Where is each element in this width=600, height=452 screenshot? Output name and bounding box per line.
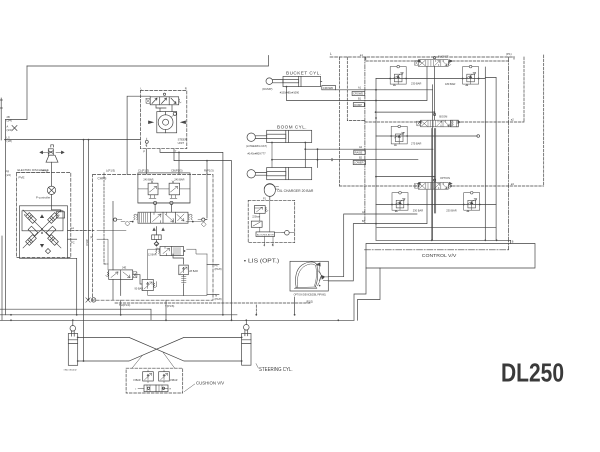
plugged port X at CHPS corner — [86, 298, 90, 302]
node T label — [175, 150, 177, 154]
junction bucket pilot — [418, 60, 420, 62]
wire top supply line — [27, 56, 269, 67]
wire CHPS R port stub — [206, 161, 208, 174]
svg-text:28 BAR: 28 BAR — [189, 270, 198, 273]
relief 230bar label — [411, 82, 422, 86]
svg-text:T: T — [175, 150, 177, 154]
svg-text:a3: a3 — [511, 182, 515, 186]
wire TH dashed collector — [115, 302, 310, 304]
svg-text:L: L — [330, 52, 332, 56]
node R label steering — [185, 86, 187, 90]
pilot control triangles under spool — [152, 228, 165, 240]
cushion relief left label — [133, 379, 141, 382]
junction rails — [10, 314, 12, 316]
boom cylinder label — [277, 125, 307, 130]
option section pilot dashed line — [339, 185, 543, 187]
relief valve option A 230bar — [392, 191, 408, 211]
wire CV spool risers bucket — [433, 67, 435, 241]
wire bucket workline through reliefs — [376, 78, 496, 79]
svg-text:PR: PR — [6, 170, 10, 174]
cushion label with leader — [184, 381, 225, 392]
svg-text:CROWD: CROWD — [353, 92, 363, 96]
wire CB port stub — [178, 152, 180, 174]
wire riser T to rail — [255, 305, 257, 315]
svg-text:(P1/8): (P1/8) — [215, 297, 222, 301]
pilot dashed riser right b3 — [543, 55, 545, 186]
reducing valve setting label — [148, 254, 157, 257]
svg-text:PVE: PVE — [19, 176, 25, 180]
svg-text:BOOM: BOOM — [439, 114, 447, 118]
cushion relief right label — [170, 379, 178, 382]
wire boom raise line — [305, 143, 433, 168]
node PD port labels — [7, 115, 12, 122]
node L label steering — [141, 86, 143, 90]
wire Ps stub — [207, 264, 219, 266]
relief valve 240bar left label — [143, 178, 153, 181]
node A1 crowd boxed label — [352, 87, 365, 96]
wire option A3 work line — [328, 214, 417, 277]
wire CV right risers — [485, 67, 496, 240]
svg-text:A1: A1 — [358, 87, 362, 90]
node Ts port — [215, 293, 222, 301]
wire steering L work line — [160, 149, 223, 315]
cylinder bucket — [266, 76, 321, 86]
plugged port X symbol — [12, 126, 17, 131]
CHPS pilot dashed internal riser — [104, 173, 108, 264]
control valve dashed boundary right — [513, 57, 515, 60]
orifice symbol at CHPS corner — [91, 298, 95, 302]
wire left cyl to rail — [72, 320, 74, 325]
pilot dash-dot boundary riser P1 — [508, 57, 510, 250]
node B1 dump boxed label — [353, 98, 364, 107]
svg-text:CL(P1/3): CL(P1/3) — [138, 169, 149, 173]
node (LOWER/FLOAT) label — [246, 144, 267, 148]
svg-text:15BAR: 15BAR — [170, 379, 178, 382]
pressure reducing valve — [155, 242, 186, 255]
node T port label — [165, 304, 174, 308]
relief valve 90bar — [142, 279, 156, 290]
wire top pilot dashed L line — [330, 56, 514, 58]
wire CV inner left riser — [375, 79, 377, 241]
node B label — [512, 241, 514, 244]
wire steering cross line 2 — [78, 337, 242, 361]
pilot dashed riser a3 — [365, 57, 367, 61]
wire bucket crowd line — [321, 82, 433, 90]
wire pump delivery B riser — [88, 140, 90, 300]
junction CHPS R stub — [206, 160, 208, 162]
wire section link line boom-option — [376, 176, 434, 178]
wire CV collector line lower — [376, 239, 497, 241]
wire steering L work port to CHPS — [127, 96, 150, 174]
svg-text:L(P1/3): L(P1/3) — [106, 169, 115, 173]
svg-text:DL250: DL250 — [501, 360, 564, 388]
node A1 label top — [360, 53, 364, 57]
svg-text:#140x#80X777: #140x#80X777 — [248, 151, 267, 155]
option device label — [294, 294, 327, 296]
oil charger label — [277, 189, 314, 193]
bucket cyl size label — [280, 90, 300, 94]
wire CV tank return step — [354, 268, 366, 320]
control valve body box — [366, 244, 535, 269]
svg-text:#150/#85x#1090: #150/#85x#1090 — [280, 90, 300, 94]
node (1)(P1/4) side label — [86, 236, 93, 246]
node (1) label — [71, 226, 74, 230]
svg-text:a2: a2 — [511, 118, 515, 122]
node [CROWD] boxed label — [322, 86, 336, 90]
node A2 raise label — [354, 146, 366, 154]
PVE dashed enclosure — [17, 173, 71, 258]
node Ps port — [215, 263, 222, 271]
accumulator block — [256, 232, 275, 237]
svg-text:(DUMP): (DUMP) — [262, 87, 272, 91]
junction right cyl — [245, 319, 247, 321]
wire option B3 work line — [328, 190, 427, 281]
svg-text:A: A — [7, 125, 9, 129]
svg-text:(1/4): (1/4) — [6, 173, 11, 177]
svg-text:B: B — [512, 241, 514, 244]
steer unit label — [178, 138, 187, 146]
relief valve bucket B 180bar — [463, 65, 479, 85]
wire steering load-sense line — [5, 139, 141, 141]
cushion check block — [135, 385, 172, 392]
charge check valve — [282, 230, 290, 235]
solenoid EPOS actuator with arrows — [40, 145, 64, 162]
junction option worklines — [375, 223, 377, 225]
bucket cylinder label — [286, 71, 322, 76]
wire left edge stub top — [0, 98, 2, 140]
wire boom workline through relief — [376, 135, 477, 137]
CHPS cutoff solenoid valve — [106, 266, 137, 279]
wire left vertical main — [5, 120, 7, 315]
wire option return step — [358, 268, 381, 320]
svg-text:PC: PC — [71, 240, 75, 244]
svg-text:P-controller: P-controller — [36, 196, 50, 200]
svg-text:(P1/2): (P1/2) — [306, 299, 313, 303]
CHPS internal piping — [97, 173, 207, 300]
relief valve 240bar left — [138, 181, 169, 199]
cylinder steering left — [68, 326, 77, 366]
relief 180bar label — [445, 82, 456, 86]
CHPS main spool valve — [114, 212, 207, 227]
svg-text:275 BAR: 275 BAR — [411, 142, 422, 146]
wire pump delivery A riser — [83, 140, 85, 361]
svg-text:90 BAR: 90 BAR — [135, 287, 144, 290]
cylinder boom upper — [247, 130, 312, 142]
svg-text:DUMP: DUMP — [354, 103, 362, 107]
junction option relief ports — [391, 204, 393, 206]
svg-text:CONTROL V/V: CONTROL V/V — [422, 253, 458, 258]
pump group enclosure — [20, 206, 68, 258]
relief 275bar label — [411, 142, 422, 146]
node B port label — [272, 243, 274, 247]
PVE label — [19, 176, 25, 180]
cushion relief left — [143, 370, 154, 383]
cylinder boom lower — [247, 168, 312, 180]
svg-text:OIL CHARGER 20 BAR: OIL CHARGER 20 BAR — [277, 189, 314, 193]
relief valve option B 230bar — [464, 191, 480, 211]
charge solenoid box — [251, 221, 262, 227]
junction risers — [255, 314, 257, 316]
svg-text:#80x#45x432: #80x#45x432 — [64, 370, 78, 372]
svg-text:230 BAR: 230 BAR — [446, 208, 457, 212]
node port label CB(P1/3) — [171, 169, 183, 173]
pilot dashed riser b2 — [364, 57, 366, 224]
svg-text:OPTION: OPTION — [440, 176, 450, 180]
LIS option label — [244, 259, 280, 265]
tandem piston pump cluster — [23, 210, 61, 248]
svg-text:2B: 2B — [7, 115, 10, 119]
node (P1/2) label — [306, 299, 313, 303]
svg-text:Ps: Ps — [215, 263, 219, 267]
wire pump PC output — [68, 238, 77, 240]
CHPS label — [98, 176, 107, 180]
svg-text:A: A — [58, 214, 60, 217]
svg-text:230 BAR: 230 BAR — [411, 82, 422, 86]
relief 90bar label — [135, 287, 144, 290]
svg-text:• LIS (OPT.): • LIS (OPT.) — [244, 259, 280, 265]
port open circle boom — [477, 135, 480, 138]
wire steering spool to gerotor — [156, 105, 172, 112]
node drain plug labels — [7, 125, 12, 133]
option device enclosure — [290, 261, 328, 291]
wire boom lower line — [272, 143, 418, 168]
spool valve bucket section — [415, 54, 453, 66]
relief option A label — [413, 208, 424, 212]
junction option pilot — [418, 185, 420, 187]
svg-text:(P1): (P1) — [506, 52, 512, 56]
cushion relief right — [159, 370, 170, 383]
servo piston small box — [56, 212, 64, 218]
relief valve bucket A 230bar — [390, 65, 406, 85]
node B2 lower label — [353, 156, 365, 164]
svg-text:RAISE: RAISE — [355, 151, 363, 155]
svg-text:(1): (1) — [90, 236, 93, 239]
svg-text:A2: A2 — [359, 146, 363, 149]
node b3 right label — [511, 182, 515, 186]
wire left vertical second — [1, 236, 3, 320]
accumulator oil charger — [264, 184, 278, 201]
wire collector to box — [497, 240, 511, 243]
svg-text:BUCKET CYL.: BUCKET CYL. — [286, 71, 322, 76]
electric discharge label — [18, 168, 49, 172]
svg-text:LS: LS — [7, 135, 10, 139]
wire tank rail upper — [0, 314, 237, 316]
pump case drain diamond — [45, 249, 50, 254]
node port label L(P1/3) — [106, 169, 115, 173]
svg-text:220bar: 220bar — [252, 215, 260, 218]
relief valve 240bar right — [169, 181, 190, 199]
actuation arrow right — [181, 121, 186, 124]
svg-text:B1: B1 — [358, 98, 362, 101]
node (DUMP) label — [262, 87, 272, 91]
junction dump — [286, 86, 288, 88]
node PC label — [71, 240, 75, 244]
accumulator charge valve dashed enclosure — [248, 200, 295, 242]
svg-text:CROWD: CROWD — [323, 86, 334, 90]
svg-text:R(P1/3): R(P1/3) — [204, 169, 214, 173]
boom section pilot dashed line — [365, 121, 524, 123]
svg-text:L: L — [141, 86, 143, 90]
wire tank rail TH — [0, 309, 151, 320]
wire P-controller down to servo — [52, 195, 61, 212]
actuation arrow left — [149, 121, 154, 124]
svg-text:ACCUMULATOR: ACCUMULATOR — [257, 233, 274, 236]
junction bucket lines — [375, 89, 377, 91]
wire bucket dump line — [287, 67, 428, 101]
node P1 (1/4) label — [263, 198, 267, 201]
svg-text:(P1/8): (P1/8) — [215, 267, 222, 271]
node B3 label — [362, 220, 366, 223]
manifold check valve ports — [138, 201, 190, 204]
relief valve 28bar charge — [179, 265, 189, 284]
svg-text:34E: 34E — [122, 266, 127, 269]
node port label CL(P1/3) — [138, 169, 149, 173]
svg-text:BUCKET: BUCKET — [438, 54, 449, 58]
wire cushion feed left — [132, 355, 142, 368]
svg-text:(3/4): (3/4) — [7, 118, 12, 122]
svg-text:UNIT: UNIT — [178, 141, 185, 145]
svg-text:ELECTRIC DISCHARGE: ELECTRIC DISCHARGE — [18, 168, 49, 172]
wire option workline through reliefs — [376, 204, 496, 206]
wire pump LS dashed output — [68, 230, 95, 232]
P-controller label — [36, 196, 50, 200]
svg-text:CB(P1/3): CB(P1/3) — [171, 169, 183, 173]
charge valve sequence — [254, 206, 268, 214]
junction left rail — [5, 139, 7, 141]
wire cushion feed right — [163, 352, 175, 368]
svg-text:A: A — [263, 243, 265, 247]
svg-text:240 BAR: 240 BAR — [174, 178, 184, 181]
svg-text:Ts: Ts — [215, 293, 218, 297]
P-controller valve (circle) — [47, 186, 55, 194]
wire boom cyl2 riser — [317, 149, 319, 167]
node L label — [330, 52, 332, 56]
pilot dashed riser b1 — [347, 57, 365, 122]
junction boom lines — [271, 159, 273, 161]
charge valve setting label — [252, 215, 260, 218]
wire CV collector line upper — [377, 227, 496, 229]
option device bucket icon — [295, 262, 329, 288]
control v/v label — [422, 253, 458, 258]
node PR labels — [6, 170, 11, 178]
svg-text:12 BAR: 12 BAR — [148, 254, 157, 257]
node P label — [143, 150, 145, 154]
bucket section pilot dashed line — [366, 60, 509, 62]
junction delivery B top — [88, 139, 90, 141]
junction cross ports — [77, 337, 79, 339]
svg-text:180 BAR: 180 BAR — [445, 82, 456, 86]
wire Ts stub — [207, 294, 219, 296]
junction CB stub — [178, 152, 180, 154]
junction relief ports — [389, 78, 391, 80]
svg-text:R: R — [170, 389, 172, 391]
node port label R(P1/3) — [204, 169, 214, 173]
relief valve 240bar right label — [174, 178, 184, 181]
svg-text:P: P — [143, 150, 145, 154]
node (P1) label — [506, 52, 512, 56]
svg-text:230 BAR: 230 BAR — [413, 208, 424, 212]
wire pump drain to tank rail — [68, 258, 77, 315]
pilot dashed riser a1 — [338, 57, 340, 186]
cushion valve dashed enclosure — [126, 368, 183, 393]
wire boom spool risers — [432, 129, 436, 241]
node A2 right label — [511, 118, 515, 122]
svg-text:LOWER: LOWER — [354, 161, 364, 165]
svg-text:STEERING CYL.: STEERING CYL. — [259, 367, 293, 373]
wire left riser from top line — [6, 66, 28, 120]
cylinder steering right — [242, 325, 251, 366]
pilot dashed riser right A2 — [523, 57, 525, 122]
junction at box entry — [496, 239, 498, 241]
svg-text:BOOM CYL.: BOOM CYL. — [277, 125, 307, 130]
node A3 label — [362, 211, 366, 214]
junction delivery A top — [83, 139, 85, 141]
junction link option — [375, 176, 377, 178]
wire steering cross line 1 — [78, 337, 242, 361]
wire riser option to rail — [294, 297, 296, 315]
CHPS dashed enclosure — [93, 175, 214, 301]
boom cyl size label — [248, 151, 267, 155]
steering unit dashed enclosure — [140, 90, 186, 148]
svg-text:CHPS: CHPS — [98, 176, 107, 180]
wire steering T port to right tank riser — [174, 149, 232, 321]
svg-text:(P1/4): (P1/4) — [86, 239, 89, 246]
wire TH stub — [120, 300, 122, 315]
svg-text:15BAR: 15BAR — [133, 379, 141, 382]
wire steering P port down — [145, 149, 147, 174]
control valve dashed bottom boundary — [365, 249, 509, 251]
svg-text:(LOWER/FLOAT): (LOWER/FLOAT) — [246, 144, 267, 148]
relief option B label — [446, 208, 457, 212]
svg-text:B2: B2 — [359, 156, 363, 159]
wire section link line bucket-boom — [376, 111, 435, 113]
junction boom relief — [390, 135, 392, 137]
node TH port label — [119, 303, 130, 307]
junction collector — [431, 239, 433, 241]
pump swash inner frame — [22, 211, 63, 231]
steering cyl label — [256, 364, 293, 373]
svg-text:a1: a1 — [360, 53, 364, 57]
node A port label — [263, 243, 265, 247]
wire tank rail lower — [0, 319, 354, 321]
spool valve boom section — [417, 113, 461, 126]
svg-text:B: B — [272, 243, 274, 247]
wire T stub — [165, 300, 167, 320]
node LD port labels — [7, 135, 12, 143]
spool valve option section — [415, 176, 453, 189]
junction left cyl — [72, 319, 74, 321]
svg-text:OPTION DEVICE(DBL PIPING): OPTION DEVICE(DBL PIPING) — [294, 294, 327, 296]
svg-text:L: L — [135, 389, 137, 391]
svg-text:T(P1/6): T(P1/6) — [165, 304, 174, 308]
steering control spool valve — [146, 93, 181, 105]
relief 28bar label — [189, 270, 198, 273]
CHPS manifold solid box — [138, 173, 190, 203]
relief valve boom 275bar — [391, 125, 407, 145]
svg-text:(3/4): (3/4) — [7, 128, 12, 132]
gerotor metering unit — [157, 112, 177, 133]
wire EPOS to P-controller — [51, 162, 53, 186]
steering left size label — [64, 370, 78, 372]
svg-text:CUSHION V/V: CUSHION V/V — [196, 381, 225, 387]
svg-text:R: R — [185, 86, 187, 90]
svg-text:a1: a1 — [71, 226, 74, 230]
charge internal wires — [255, 200, 295, 246]
svg-text:240 BAR: 240 BAR — [143, 178, 153, 181]
wire right cyl to rail — [246, 318, 354, 324]
steering drain port symbol — [145, 138, 148, 147]
orifice check diamond — [154, 241, 159, 246]
